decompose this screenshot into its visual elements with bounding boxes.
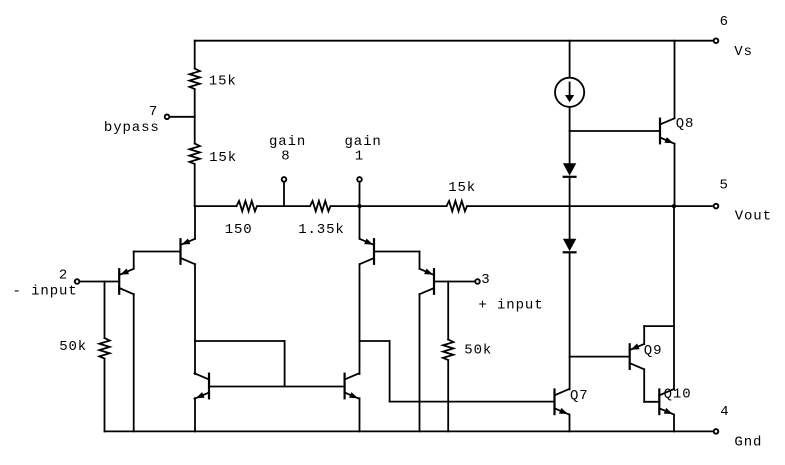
svg-text:15k: 15k xyxy=(448,180,476,196)
svg-text:3: 3 xyxy=(481,272,490,288)
svg-text:8: 8 xyxy=(281,149,290,165)
svg-text:6: 6 xyxy=(720,14,729,30)
svg-text:Q7: Q7 xyxy=(570,388,589,404)
svg-text:15k: 15k xyxy=(209,74,237,90)
svg-text:Q10: Q10 xyxy=(664,387,692,403)
svg-text:15k: 15k xyxy=(209,150,237,166)
svg-text:50k: 50k xyxy=(464,342,492,358)
svg-text:5: 5 xyxy=(720,178,729,194)
svg-text:Q8: Q8 xyxy=(676,116,695,132)
svg-text:2: 2 xyxy=(59,268,68,284)
svg-text:1: 1 xyxy=(355,149,364,165)
svg-text:Q9: Q9 xyxy=(644,343,663,359)
svg-text:4: 4 xyxy=(720,404,729,420)
svg-text:150: 150 xyxy=(225,222,253,238)
svg-text:Gnd: Gnd xyxy=(734,434,762,450)
svg-text:- input: - input xyxy=(13,284,78,300)
svg-text:Vs: Vs xyxy=(734,44,753,60)
svg-text:bypass: bypass xyxy=(104,120,160,136)
svg-text:50k: 50k xyxy=(59,339,87,355)
svg-text:1.35k: 1.35k xyxy=(298,222,345,238)
svg-text:7: 7 xyxy=(149,104,158,120)
svg-text:Vout: Vout xyxy=(735,209,772,225)
svg-text:+ input: + input xyxy=(478,298,543,314)
